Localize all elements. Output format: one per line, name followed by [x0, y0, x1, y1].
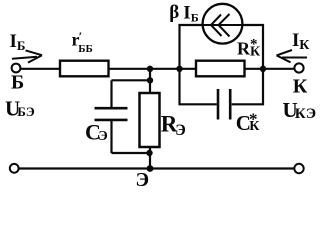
wire base terminal to r'BB	[21, 68, 61, 70]
node dot at emitter rail	[147, 165, 154, 172]
wire R*K to collector terminal	[244, 68, 295, 70]
svg-text:Э: Э	[136, 169, 150, 191]
svg-text:КЭ: КЭ	[295, 106, 316, 122]
svg-text:′: ′	[79, 29, 83, 44]
svg-text:Б: Б	[191, 10, 199, 24]
wire C_E top lead vertical	[110, 80, 112, 107]
svg-text:β: β	[169, 2, 179, 23]
terminal bottom right	[294, 164, 303, 173]
current source chevron 2	[219, 14, 230, 37]
svg-text:К: К	[293, 76, 308, 98]
svg-text:I: I	[10, 31, 17, 52]
wire C_E bottom lead vertical	[110, 121, 112, 154]
svg-text:БЭ: БЭ	[17, 104, 35, 119]
svg-text:ББ: ББ	[78, 43, 93, 55]
wire current source left lead	[180, 25, 217, 104]
svg-text:К: К	[250, 45, 261, 60]
svg-text:I: I	[183, 2, 190, 23]
svg-text:К: К	[299, 38, 310, 53]
node dot current source right	[260, 66, 266, 72]
capacitor C*K plates	[218, 89, 230, 120]
node dot at C_E bottom tee	[146, 150, 152, 156]
wire emitter bottom rail	[19, 167, 295, 169]
wire node A down to R_E top	[149, 69, 151, 93]
wire C_E top branch horizontal	[112, 79, 151, 81]
current I_K arrow	[277, 50, 308, 62]
resistor R_E	[140, 93, 160, 147]
wire r'BB to R*K (through nodes)	[108, 68, 196, 70]
svg-text:R: R	[237, 39, 251, 59]
resistor r'BB	[60, 61, 109, 77]
terminal bottom left	[10, 164, 19, 173]
wire R_E bottom to emitter rail	[149, 147, 151, 169]
terminal B (base)	[12, 64, 21, 73]
capacitor C_E plates	[95, 108, 128, 120]
wire current source right lead	[232, 25, 263, 104]
svg-text:К: К	[249, 119, 260, 134]
current source arrow line	[203, 24, 242, 26]
svg-text:Э: Э	[175, 122, 186, 139]
resistor R*K	[196, 61, 245, 77]
current source chevron 1	[211, 15, 222, 37]
node dot current source left	[176, 66, 182, 72]
svg-text:I: I	[292, 30, 299, 51]
node dot at C_E top tee	[147, 77, 153, 83]
svg-text:Э: Э	[98, 129, 108, 144]
svg-text:Б: Б	[11, 72, 24, 94]
current I_B arrow	[12, 50, 42, 62]
current source U1 circle	[203, 4, 243, 44]
node dot at base node	[147, 66, 153, 72]
wire C_E bottom branch horizontal	[112, 152, 151, 154]
terminal K (collector)	[294, 63, 303, 72]
svg-text:Б: Б	[17, 38, 26, 53]
